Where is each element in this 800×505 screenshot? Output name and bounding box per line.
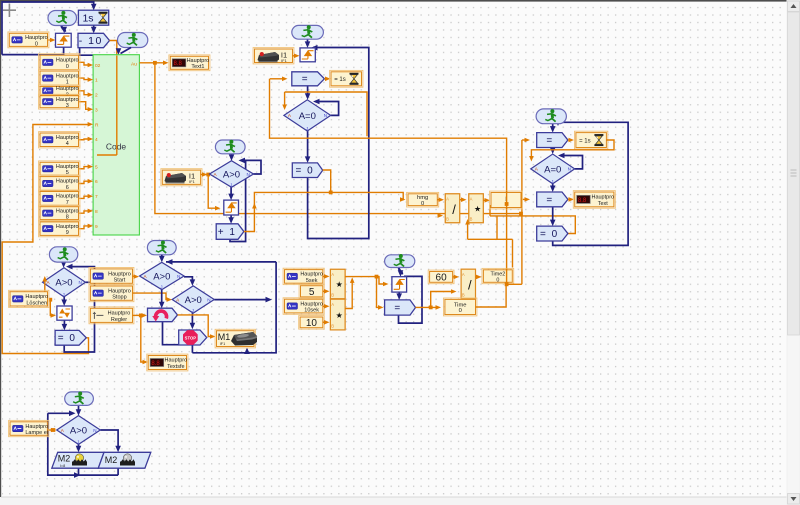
svg-text:A>0: A>0 [153,271,170,282]
svg-text:Hauptpro: Hauptpro [25,294,48,300]
svg-text:Text: Text [598,201,609,207]
svg-text:=: = [546,135,552,146]
svg-text:M1: M1 [218,332,231,342]
svg-text:Hauptpro: Hauptpro [300,301,323,307]
svg-text:Hauptpro: Hauptpro [56,73,79,79]
svg-text:★: ★ [336,311,343,320]
svg-text:Text1: Text1 [191,64,204,70]
svg-text:N: N [78,280,81,285]
svg-text:/: / [468,277,472,292]
svg-text:Au: Au [131,62,137,68]
svg-text:/: / [452,202,456,217]
svg-text:=: = [394,303,400,314]
svg-text:B: B [331,324,334,329]
svg-text:Hauptpro: Hauptpro [56,164,79,170]
svg-text:IF1: IF1 [281,59,287,63]
svg-text:N: N [568,167,571,172]
svg-text:8.8: 8.8 [151,361,160,367]
svg-text:A: A [462,272,465,277]
svg-text:10: 10 [306,318,318,329]
svg-text:J: J [551,179,553,184]
svg-text:A=0: A=0 [299,111,316,122]
svg-text:0: 0 [496,277,499,283]
svg-text:A: A [446,196,449,201]
svg-text:= 0: = 0 [540,229,559,240]
svg-text:Hauptpro: Hauptpro [300,272,323,278]
svg-text:0: 0 [421,201,424,207]
svg-text:N: N [324,113,327,118]
svg-text:4: 4 [95,137,98,143]
svg-text:Hauptpro: Hauptpro [56,179,79,185]
svg-text:A: A [331,272,334,277]
svg-text:★: ★ [474,204,481,213]
svg-text:7: 7 [95,194,98,200]
svg-text:Start: Start [114,278,126,284]
svg-text:Lampe ei: Lampe ei [25,430,48,436]
svg-text:IF1: IF1 [220,342,226,346]
svg-text:Stopp: Stopp [112,295,126,301]
svg-text:Löschen: Löschen [26,300,47,306]
svg-text:+ 1: + 1 [218,227,237,238]
svg-text:A>0: A>0 [55,278,72,289]
svg-text:10sek: 10sek [304,307,319,313]
svg-text:8.8: 8.8 [174,61,183,67]
svg-text:A>0: A>0 [185,295,202,306]
svg-text:9: 9 [66,230,69,236]
svg-text:= 0: = 0 [58,333,77,344]
svg-text:J: J [230,182,232,187]
svg-text:A=0: A=0 [544,164,561,175]
svg-text:N: N [177,274,180,279]
svg-text:Hauptpro: Hauptpro [56,86,79,92]
svg-text:Hauptpro: Hauptpro [56,194,79,200]
svg-text:Regler: Regler [111,317,127,323]
svg-text:5: 5 [309,287,315,298]
svg-text:J: J [306,126,308,131]
svg-text:J: J [192,308,194,313]
svg-text:R: R [95,122,99,128]
svg-text:Hauptpro: Hauptpro [187,58,210,64]
svg-text:6: 6 [95,179,98,185]
svg-text:Hauptpro: Hauptpro [108,311,131,317]
svg-text:N: N [247,172,250,177]
svg-text:3: 3 [66,103,69,109]
svg-text:A: A [470,196,473,201]
svg-text:N: N [93,428,96,433]
svg-text:J: J [160,285,162,290]
svg-text:- 10: - 10 [79,35,103,47]
svg-text:1: 1 [95,78,98,84]
svg-text:B: B [331,293,334,298]
svg-text:3: 3 [95,107,98,113]
svg-text:M2: M2 [58,454,71,464]
svg-text:0: 0 [66,64,69,70]
svg-text:B: B [462,293,465,298]
svg-text:A>0: A>0 [70,425,87,436]
svg-text:Hauptpro: Hauptpro [56,97,79,103]
svg-text:Hauptpro: Hauptpro [591,195,614,201]
svg-text:=: = [546,195,552,206]
svg-text:J: J [77,439,79,444]
svg-text:I=8: I=8 [60,464,65,468]
svg-text:A>0: A>0 [223,169,240,180]
svg-text:IF1: IF1 [189,180,195,184]
svg-text:J: J [62,292,64,297]
svg-text:= 1s: = 1s [334,77,346,83]
svg-text:Hauptpro: Hauptpro [108,288,131,294]
svg-text:Hauptpro: Hauptpro [56,58,79,64]
svg-text:8: 8 [66,215,69,221]
svg-text:5sek: 5sek [306,278,318,284]
svg-text:Textsfe: Textsfe [167,364,184,370]
svg-text:8.8: 8.8 [578,198,587,204]
svg-text:02: 02 [95,63,101,69]
svg-text:Hauptpro: Hauptpro [56,135,79,141]
svg-text:Hauptpro: Hauptpro [25,35,48,41]
svg-text:N: N [207,297,210,302]
svg-text:0: 0 [35,41,38,47]
svg-text:Hauptpro: Hauptpro [25,424,48,430]
svg-text:5: 5 [95,165,98,171]
svg-text:Hauptpro: Hauptpro [56,224,79,230]
svg-text:0: 0 [459,308,462,314]
svg-text:Hauptpro: Hauptpro [56,208,79,214]
svg-text:=: = [302,74,308,85]
svg-text:B: B [470,217,473,222]
svg-text:Hauptpro: Hauptpro [165,358,188,364]
svg-text:Hauptpro: Hauptpro [108,271,131,277]
svg-text:1s: 1s [82,13,93,25]
svg-text:M2: M2 [105,455,118,465]
svg-text:9: 9 [95,224,98,230]
svg-text:60: 60 [436,273,448,284]
svg-text:2: 2 [95,93,98,99]
svg-text:8: 8 [95,209,98,215]
svg-text:4: 4 [66,141,69,147]
svg-text:= 0: = 0 [296,166,315,177]
svg-text:STOP: STOP [185,335,197,340]
svg-text:= 1s: = 1s [579,138,591,144]
svg-text:1: 1 [66,80,69,86]
svg-text:★: ★ [336,280,343,289]
svg-text:B: B [446,217,449,222]
svg-text:A: A [331,302,334,307]
